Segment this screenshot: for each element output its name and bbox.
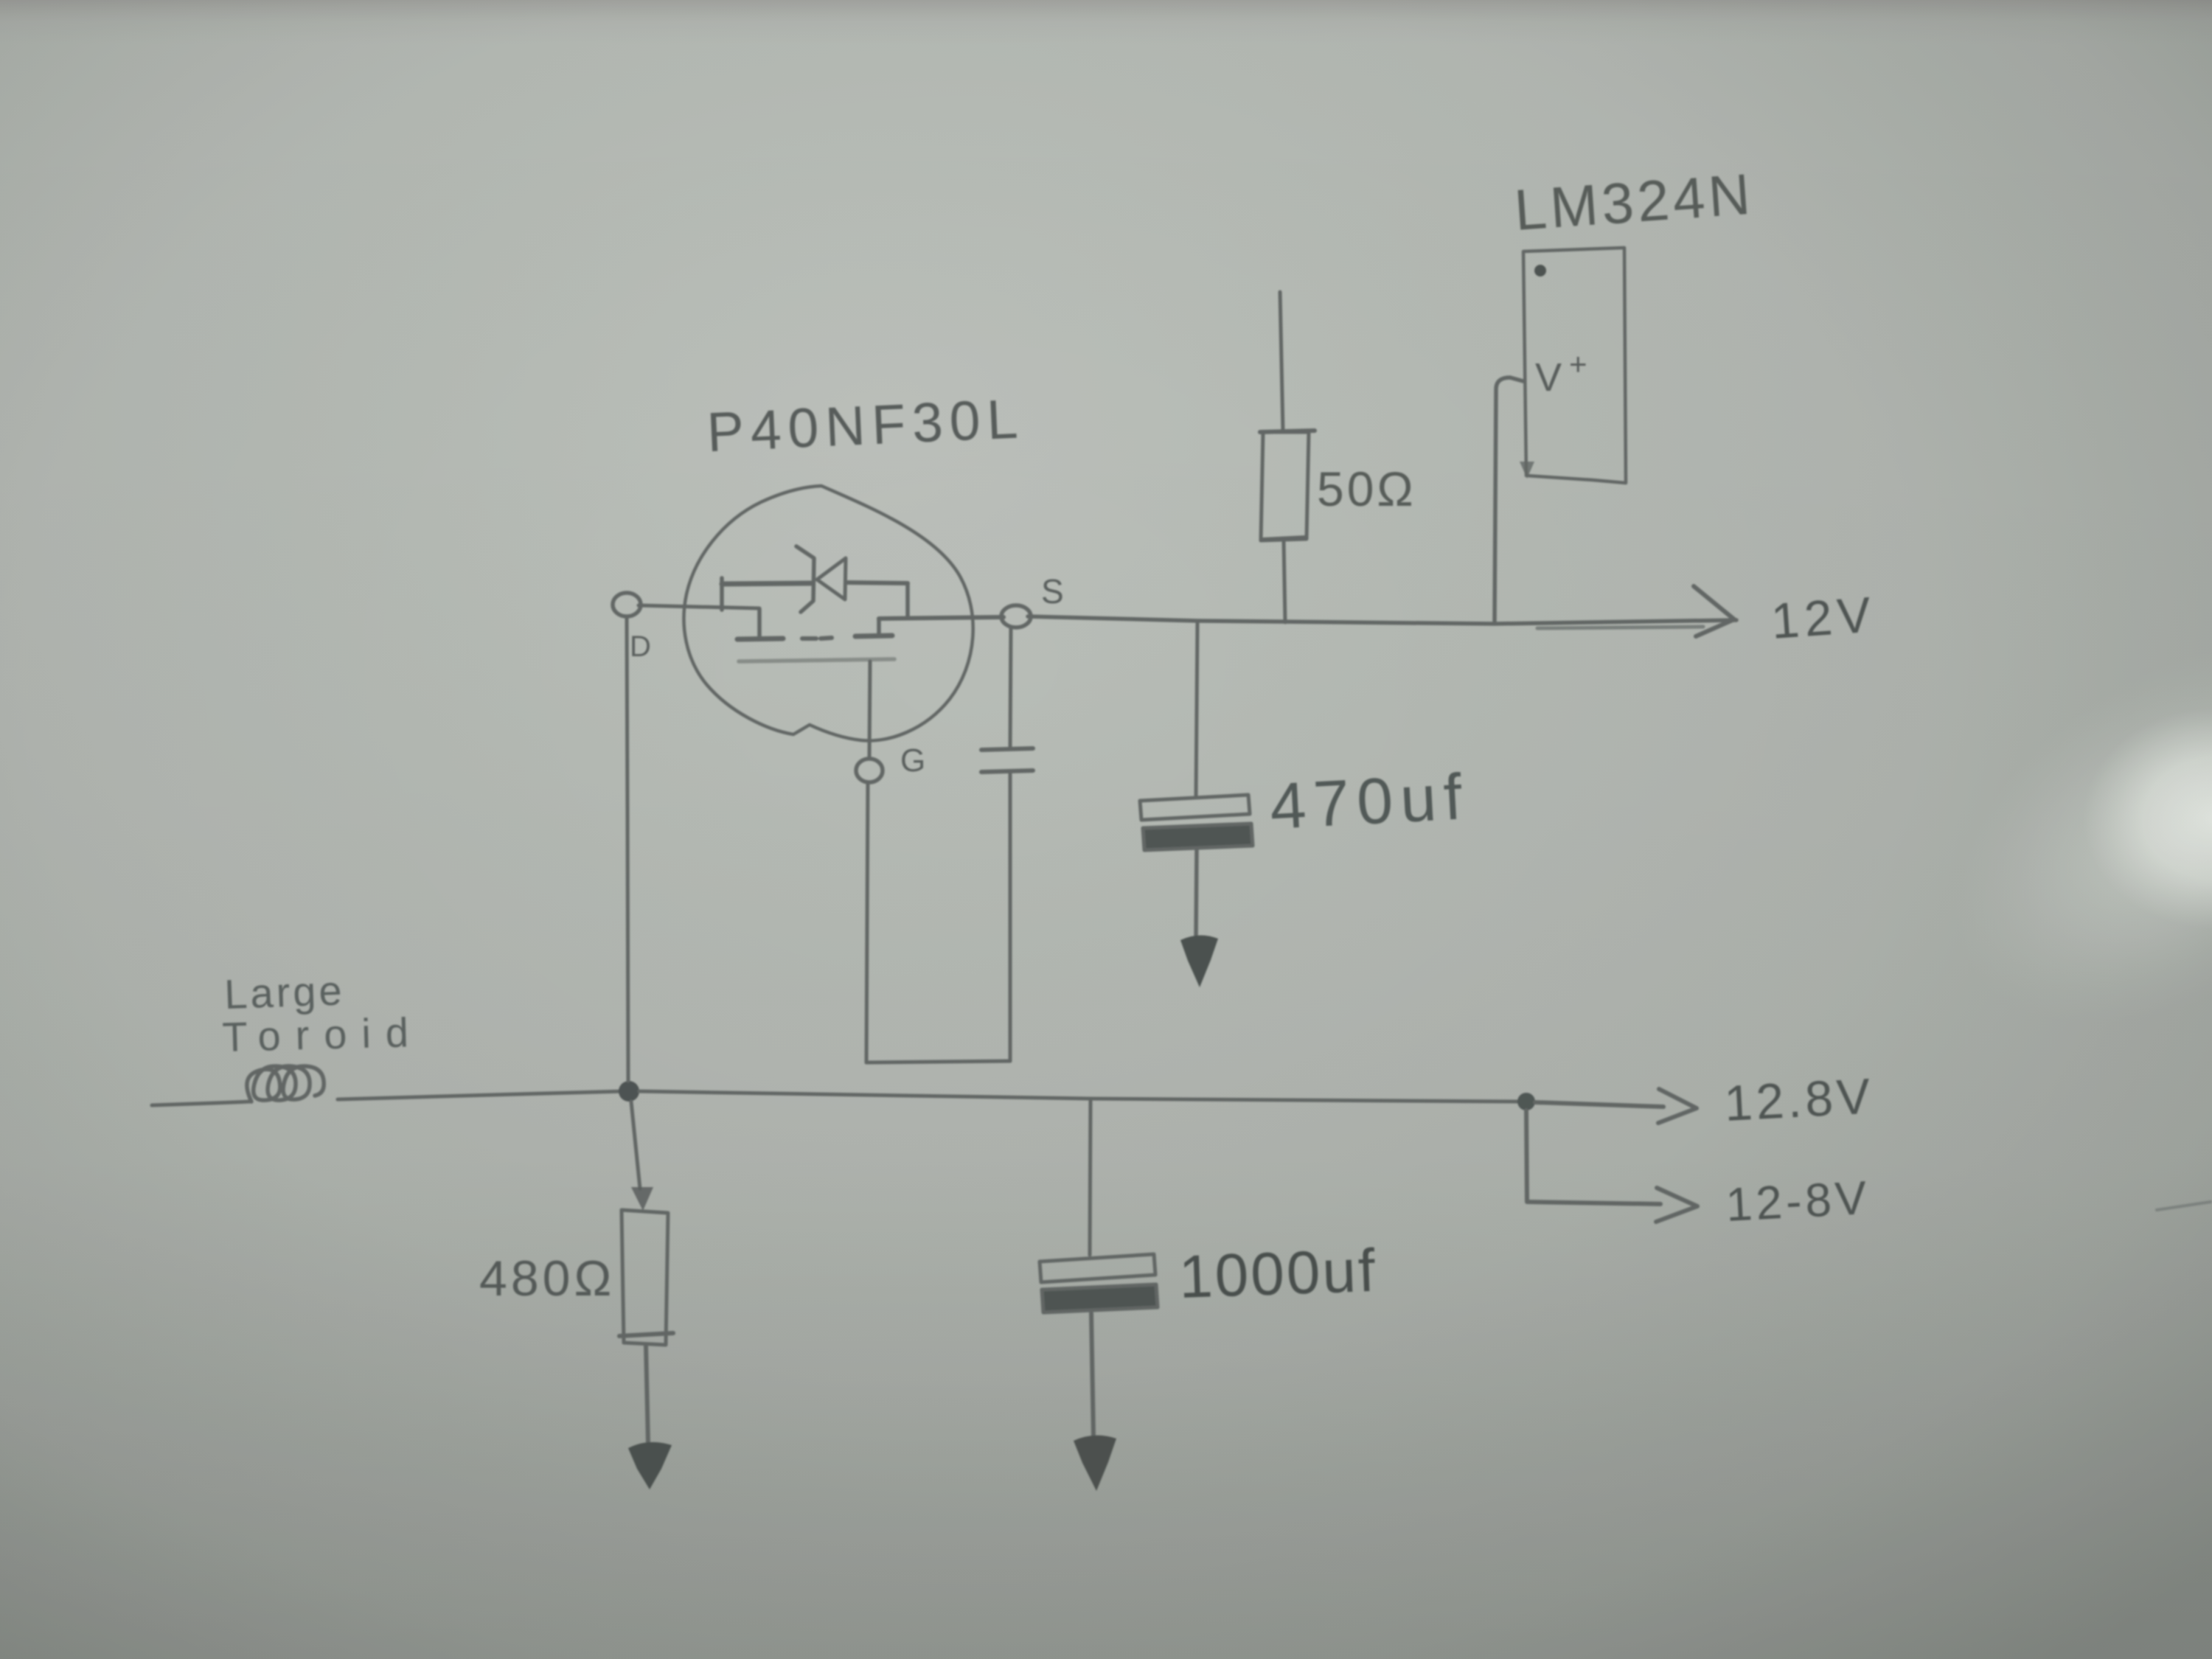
svg-text:50Ω: 50Ω bbox=[1317, 462, 1416, 516]
capacitor C3 (gate-source) bottom plate bbox=[981, 771, 1033, 772]
transistor Q1 : left channel contact bbox=[737, 609, 783, 639]
svg-text:G: G bbox=[900, 742, 925, 779]
transistor Q1 : drain bar to top rail bbox=[720, 578, 724, 610]
capacitor C2 1000uf : top plate bbox=[1040, 1254, 1155, 1282]
svg-text:12-8V: 12-8V bbox=[1725, 1171, 1871, 1231]
op-amp U1 : small arrowhead at left edge bottom bbox=[1520, 462, 1534, 479]
stray pencil mark right edge bbox=[2157, 1202, 2211, 1210]
wire: gate down from G to bottom link bbox=[866, 782, 868, 1062]
wire: toroid to node A bbox=[338, 1091, 622, 1099]
resistor R2 480Ω : arrowhead at top of body bbox=[631, 1187, 653, 1211]
net label 12-8V bbox=[1725, 1171, 1871, 1231]
svg-text:480Ω: 480Ω bbox=[479, 1251, 615, 1307]
svg-text:Toroid: Toroid bbox=[222, 1009, 424, 1060]
wire: V+ pin hook and vertical down to 12V rail bbox=[1495, 378, 1523, 622]
svg-text:12.8V: 12.8V bbox=[1723, 1068, 1875, 1132]
label "Large" bbox=[223, 967, 345, 1018]
net label 12.8V bbox=[1723, 1068, 1875, 1132]
wire: node B down and right to 12-8V arrow bbox=[1526, 1110, 1660, 1204]
transistor Q1 : source bar down to S wire bbox=[905, 583, 910, 618]
wire: bottom link G to gate-source cap bbox=[866, 1061, 1010, 1062]
label P40NF30L bbox=[706, 387, 1026, 463]
capacitor C2 1000uf : lead to ground bbox=[1091, 1313, 1093, 1436]
resistor R1 50Ω : lead down to 12V rail bbox=[1284, 541, 1285, 622]
resistor R2 480Ω : lead to ground bbox=[646, 1345, 648, 1444]
resistor R2 480Ω : body bbox=[619, 1210, 673, 1345]
value label 50Ω bbox=[1317, 462, 1416, 516]
capacitor C1 470uf : top plate bbox=[1140, 795, 1250, 820]
ground (below 480Ω) bbox=[628, 1442, 672, 1489]
op-amp U1 LM324N : package rectangle bbox=[1523, 248, 1626, 483]
node B (12.8V branch junction) bbox=[1517, 1093, 1535, 1110]
capacitor C1 470uf : lead from 12V rail bbox=[1196, 623, 1197, 797]
wire: MOSFET drain vertical (node A up to D terminal) bbox=[627, 617, 628, 1081]
arrowhead 12.8V bbox=[1658, 1089, 1697, 1123]
value label 480Ω bbox=[479, 1251, 615, 1307]
capacitor C3 (gate-source) top plate bbox=[981, 748, 1033, 750]
wire: S down to gate-source cap top bbox=[1010, 627, 1011, 748]
arrowhead 12-8V bbox=[1656, 1188, 1697, 1222]
svg-text:V: V bbox=[1535, 355, 1562, 400]
svg-text:470uf: 470uf bbox=[1268, 759, 1471, 843]
transistor Q1 : G terminal circle bbox=[856, 759, 883, 782]
wire: node A to 1000uf tap and node B bbox=[639, 1091, 1518, 1102]
body diode D1 : triangle bbox=[817, 558, 846, 599]
transistor Q1 : gate channel dashes bbox=[802, 638, 832, 639]
arrowhead 12V bbox=[1694, 586, 1734, 636]
transistor Q1 : gate plate bbox=[739, 659, 894, 661]
op-amp U1 LM324N : label bbox=[1512, 161, 1756, 243]
value label 1000uf bbox=[1178, 1237, 1378, 1311]
transistor Q1 : top rail right segment bbox=[846, 582, 908, 583]
ground (below 1000uf) bbox=[1074, 1436, 1116, 1491]
capacitor C1 470uf : lead to ground bbox=[1196, 850, 1197, 939]
transistor Q1 : top rail left segment bbox=[722, 583, 811, 584]
resistor R1 50Ω : lead above bbox=[1280, 292, 1283, 431]
capacitor C2 1000uf : lead from rail bbox=[1090, 1100, 1091, 1255]
resistor R2 480Ω : lead from node A bbox=[631, 1102, 640, 1189]
transistor Q1 : S terminal circle bbox=[1001, 605, 1031, 627]
svg-text:D: D bbox=[630, 630, 651, 663]
pin label G bbox=[900, 742, 925, 779]
inductor L1 (Large Toroid) bbox=[247, 1066, 324, 1102]
svg-text:+: + bbox=[1569, 347, 1587, 381]
wire: input segment left of toroid bbox=[152, 1102, 250, 1105]
pin label S bbox=[1041, 572, 1064, 611]
transistor Q1 : right channel contact bbox=[855, 619, 892, 636]
svg-text:Large: Large bbox=[223, 967, 345, 1018]
wire: D terminal into package bbox=[639, 605, 759, 608]
wire: gate-source cap bottom down to bottom link bbox=[1009, 773, 1012, 1061]
label "Toroid" bbox=[222, 1009, 424, 1060]
node A (junction of toroid rail, MOSFET drain branch, 480R branch) bbox=[619, 1081, 639, 1102]
pin label V+ bbox=[1535, 347, 1587, 400]
op-amp U1 : pin-1 dot bbox=[1534, 265, 1546, 276]
transistor Q1 : gate lead down bbox=[869, 661, 870, 757]
body diode D1 : cathode bar with hooks bbox=[796, 546, 814, 612]
svg-text:S: S bbox=[1041, 572, 1064, 611]
wire: internal source rail out to S terminal bbox=[879, 617, 1004, 619]
transistor Q1 : D terminal circle bbox=[613, 593, 641, 616]
wire: node B to 12.8V arrow bbox=[1535, 1102, 1663, 1107]
wire: 12V rail from S terminal bbox=[1028, 616, 1736, 624]
resistor R1 50Ω : body bbox=[1260, 431, 1315, 540]
capacitor C2 1000uf : bottom plate (filled) bbox=[1042, 1284, 1158, 1312]
net label 12V bbox=[1770, 586, 1878, 650]
transistor Q1 P40NF30L : package circle bbox=[684, 486, 973, 741]
svg-text:1000uf: 1000uf bbox=[1178, 1237, 1378, 1311]
wire: doubled stroke on 12V rail bbox=[1537, 627, 1703, 628]
ground (below 470uf) bbox=[1180, 935, 1218, 987]
capacitor C1 470uf : bottom plate (filled) bbox=[1143, 824, 1253, 850]
svg-text:12V: 12V bbox=[1770, 586, 1878, 650]
pin label D bbox=[630, 630, 651, 663]
value label 470uf bbox=[1268, 759, 1471, 843]
